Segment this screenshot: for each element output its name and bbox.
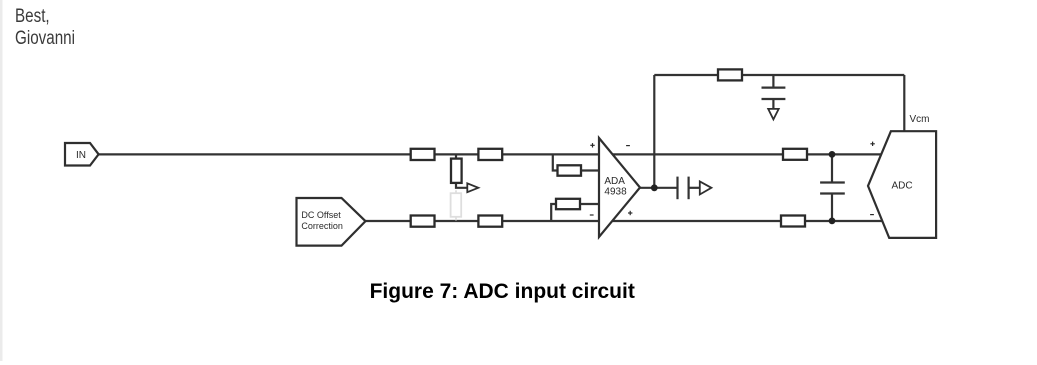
svg-text:4938: 4938 — [604, 186, 627, 197]
svg-text:Vcm: Vcm — [910, 114, 930, 125]
svg-text:DC Offset: DC Offset — [301, 210, 341, 220]
svg-text:Correction: Correction — [301, 221, 343, 231]
svg-text:ADC: ADC — [892, 181, 913, 192]
svg-text:IN: IN — [76, 150, 86, 161]
